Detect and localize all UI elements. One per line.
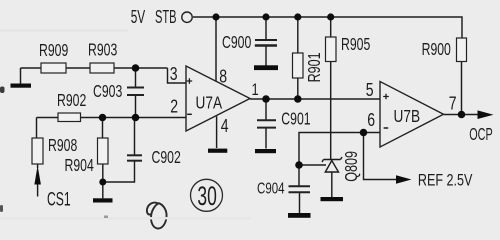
ground U7A pin4	[208, 149, 227, 153]
wire left input to R909	[21, 67, 42, 69]
wire C902 top lead	[134, 118, 136, 156]
wire U7A output to U7B pin5	[250, 98, 380, 100]
svg-text:R903: R903	[88, 41, 117, 61]
wire zener bottom lead	[331, 172, 333, 197]
svg-text:R905: R905	[341, 35, 370, 55]
svg-text:4: 4	[221, 116, 229, 136]
node C903-C902	[132, 114, 140, 122]
node R904-C902 bottom	[99, 179, 106, 186]
svg-text:REF 2.5V: REF 2.5V	[418, 171, 473, 190]
wire step into pin3 U7A	[168, 68, 187, 83]
svg-text:5V: 5V	[131, 8, 146, 28]
capacitor C903	[127, 88, 144, 96]
resistor R908	[32, 138, 43, 164]
svg-text:Q809: Q809	[342, 151, 362, 182]
svg-text:OCP: OCP	[469, 126, 492, 145]
svg-text:R901: R901	[305, 52, 325, 82]
svg-text:R902: R902	[57, 91, 86, 111]
capacitor C900	[255, 40, 277, 46]
op-amp U7A	[186, 66, 250, 131]
resistor R904	[98, 138, 109, 164]
svg-text:C904: C904	[257, 179, 285, 197]
svg-text:7: 7	[449, 94, 457, 114]
wire node to zener Q809	[299, 164, 326, 166]
svg-text:1: 1	[252, 81, 259, 100]
op-amp U7B plus	[383, 94, 389, 100]
svg-text:C900: C900	[222, 33, 251, 53]
wire R905 to zener Q809	[330, 62, 332, 160]
wire lower row into pin2 U7A	[37, 117, 187, 119]
ground zener Q809	[321, 197, 344, 201]
resistor R905	[326, 37, 337, 62]
resistor R900	[457, 38, 467, 62]
wire C901 top lead	[265, 99, 267, 120]
wire R901 top lead	[297, 17, 299, 53]
wire pin8 U7A	[215, 17, 217, 82]
ground C901	[255, 149, 276, 153]
wire R908 to CS1 arrow	[37, 164, 39, 168]
svg-text:C902: C902	[152, 148, 181, 168]
resistor R903	[90, 63, 114, 73]
ground C904	[288, 213, 311, 218]
op-amp U7B minus	[384, 127, 389, 129]
wire U7A pin4 to ground	[216, 116, 218, 148]
wire 5V STB rail	[193, 17, 462, 38]
scan smudge left edge	[0, 87, 5, 94]
svg-text:6: 6	[367, 110, 375, 130]
svg-text:8: 8	[219, 67, 227, 87]
node out-C901	[262, 95, 270, 103]
wire R901 bottom lead	[297, 78, 299, 99]
wire C903 bottom lead	[135, 96, 137, 118]
node pin6-REF	[360, 129, 368, 137]
handwritten pen scribble	[147, 203, 167, 229]
node R904 top	[99, 114, 107, 122]
capacitor C902	[127, 155, 142, 160]
wire left ground riser	[20, 68, 22, 84]
arrow OCP output	[478, 110, 494, 119]
wire R908 top lead	[36, 118, 38, 139]
wire C901 bottom lead	[265, 128, 267, 149]
faint scan streaks	[0, 30, 128, 32]
resistor R909	[41, 63, 66, 73]
node rail-C900	[262, 13, 269, 20]
wire U7B pin6 row	[299, 133, 380, 187]
capacitor C904	[289, 186, 311, 192]
sheet number circle 30	[191, 179, 223, 211]
node A R903-C903	[132, 64, 140, 72]
svg-text:2: 2	[170, 97, 178, 117]
node pin7-R900	[458, 111, 466, 119]
op-amp U7A minus	[187, 113, 192, 115]
wire R905 top lead	[330, 17, 332, 37]
wire R903 to node A	[114, 67, 168, 69]
arrow CS1 input	[34, 166, 41, 185]
wire CS1 stem	[37, 184, 39, 197]
resistor R902	[58, 113, 81, 122]
wire R904 top lead	[102, 118, 104, 139]
arrow REF 2.5V	[396, 175, 412, 184]
wire REF takeoff	[364, 133, 397, 180]
wire C900 top lead	[265, 17, 267, 40]
ground R904 C902	[93, 198, 113, 202]
wire C903 top lead	[135, 68, 137, 87]
svg-text:U7A: U7A	[196, 94, 223, 113]
wire R904 bottom lead	[102, 164, 104, 198]
ground left input	[11, 84, 32, 88]
svg-text:30: 30	[197, 181, 216, 211]
svg-text:U7B: U7B	[394, 107, 421, 126]
wire C904 bottom lead	[299, 193, 301, 214]
node rail-R901	[294, 13, 301, 20]
svg-text:3: 3	[170, 64, 178, 84]
node rail-pin8	[212, 13, 219, 20]
svg-text:R908: R908	[48, 136, 77, 156]
op-amp U7B	[380, 82, 444, 148]
svg-text:C903: C903	[93, 82, 122, 102]
svg-text:5: 5	[366, 80, 374, 100]
zener diode Q809	[322, 157, 342, 172]
wire C902 bottom to node	[103, 161, 135, 182]
node out-R901	[294, 95, 302, 103]
node pin6-zener	[295, 161, 303, 169]
wire U7B pin7 to OCP	[444, 114, 479, 116]
capacitor C901	[257, 120, 276, 127]
svg-text:R909: R909	[39, 41, 68, 61]
svg-text:R904: R904	[65, 156, 94, 176]
svg-text:CS1: CS1	[47, 190, 71, 210]
svg-text:R900: R900	[422, 40, 451, 60]
terminal 5V STB	[182, 12, 192, 22]
op-amp U7A plus	[187, 78, 193, 84]
wire R909 to R903	[66, 67, 90, 69]
node rail-R905	[327, 13, 334, 20]
wire C900 bottom lead	[265, 46, 267, 66]
resistor R901	[293, 53, 304, 78]
svg-text:STB: STB	[155, 7, 177, 28]
wire R900 bottom lead	[461, 62, 463, 115]
ground C900	[254, 65, 278, 70]
svg-text:C901: C901	[281, 109, 310, 129]
